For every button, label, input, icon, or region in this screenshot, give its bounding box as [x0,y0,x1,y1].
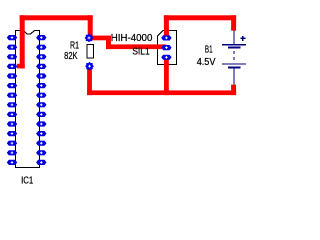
wire net C: vertical from SIL1 pin 3 down [164,57,169,95]
IC1 pin 10 pad [7,121,17,126]
wire net A: vertical inside IC1 [20,15,25,68]
IC1 pin 20 pad [36,112,46,117]
svg-text:B1: B1 [205,44,213,55]
IC1 pin 14 pad [7,160,17,165]
IC1 pin 12 pad [7,141,17,146]
battery B1 short plate 1 [228,47,241,49]
IC1 pin 3 pad [7,54,17,59]
IC1 pin 4 pad [7,64,17,69]
SIL1 pin 3 pad [161,55,171,60]
svg-text:SIL1: SIL1 [132,47,150,58]
wire net A: horizontal from R1 top to jog [89,36,111,41]
wire net A: horizontal jog to SIL1 pin 2 [106,44,166,49]
battery B1 plus sign [240,38,245,39]
wire net B: vertical from SIL1 pin 1 up [164,15,169,38]
svg-text:4.5V: 4.5V [197,57,216,68]
wire net C: vertical from R1 bottom down [87,66,92,95]
IC1 pin 7 pad [7,93,17,98]
IC1 pin 26 pad [36,54,46,59]
wire net A: jog vertical [106,36,111,50]
wire net B: vertical down to battery plus [231,15,236,30]
battery B1 long plate 1 [222,44,246,45]
IC1 pin 16 pad [36,150,46,155]
battery B1 short plate 2 [228,67,241,69]
IC1 pin 2 pad [7,45,17,50]
IC1 pin 1 pad [7,35,17,40]
IC1 pin 6 pad [7,83,17,88]
SIL1 pin 1 pad [161,35,171,40]
battery B1 top lead [233,31,234,44]
wire net A: top horizontal left segment [20,15,93,20]
IC1 pin 13 pad [7,150,17,155]
IC1 pin 24 pad [36,73,46,78]
svg-text:HIH-4000: HIH-4000 [111,33,153,44]
battery B1 bottom lead [233,69,234,85]
wire net C: vertical up to battery minus [231,85,236,96]
IC1 pin 17 pad [36,141,46,146]
sensor SIL1 box outline [158,31,177,65]
IC1 pin 19 pad [36,121,46,126]
battery B1 dashed middle link [233,51,234,54]
wire net B: top horizontal right segment [164,15,236,20]
svg-text:IC1: IC1 [21,175,34,186]
wire net C: bottom horizontal [87,90,236,95]
IC1 pin 21 pad [36,102,46,107]
node pad R1 top [85,34,94,43]
IC1 pin 5 pad [7,73,17,78]
IC1 pin 27 pad [36,45,46,50]
node pad R1 bottom [85,62,94,71]
IC1 pin 22 pad [36,93,46,98]
IC1 pin 28 pad [36,35,46,40]
IC1 pin 11 pad [7,131,17,136]
IC1 pin 25 pad [36,64,46,69]
svg-text:R1: R1 [70,40,79,51]
ic IC1 body outline with notch [16,31,40,168]
IC1 pin 8 pad [7,102,17,107]
svg-text:82K: 82K [64,51,78,62]
IC1 pin 18 pad [36,131,46,136]
IC1 pin 23 pad [36,83,46,88]
IC1 pin 9 pad [7,112,17,117]
wire net A: vertical down to R1 top [88,15,93,38]
IC1 pin 15 pad [36,160,46,165]
battery B1 long plate 2 [222,63,246,64]
resistor R1 body [87,45,94,59]
SIL1 pin 2 pad [161,45,171,50]
wire net A: stub to IC1 pin 4 [17,64,25,69]
